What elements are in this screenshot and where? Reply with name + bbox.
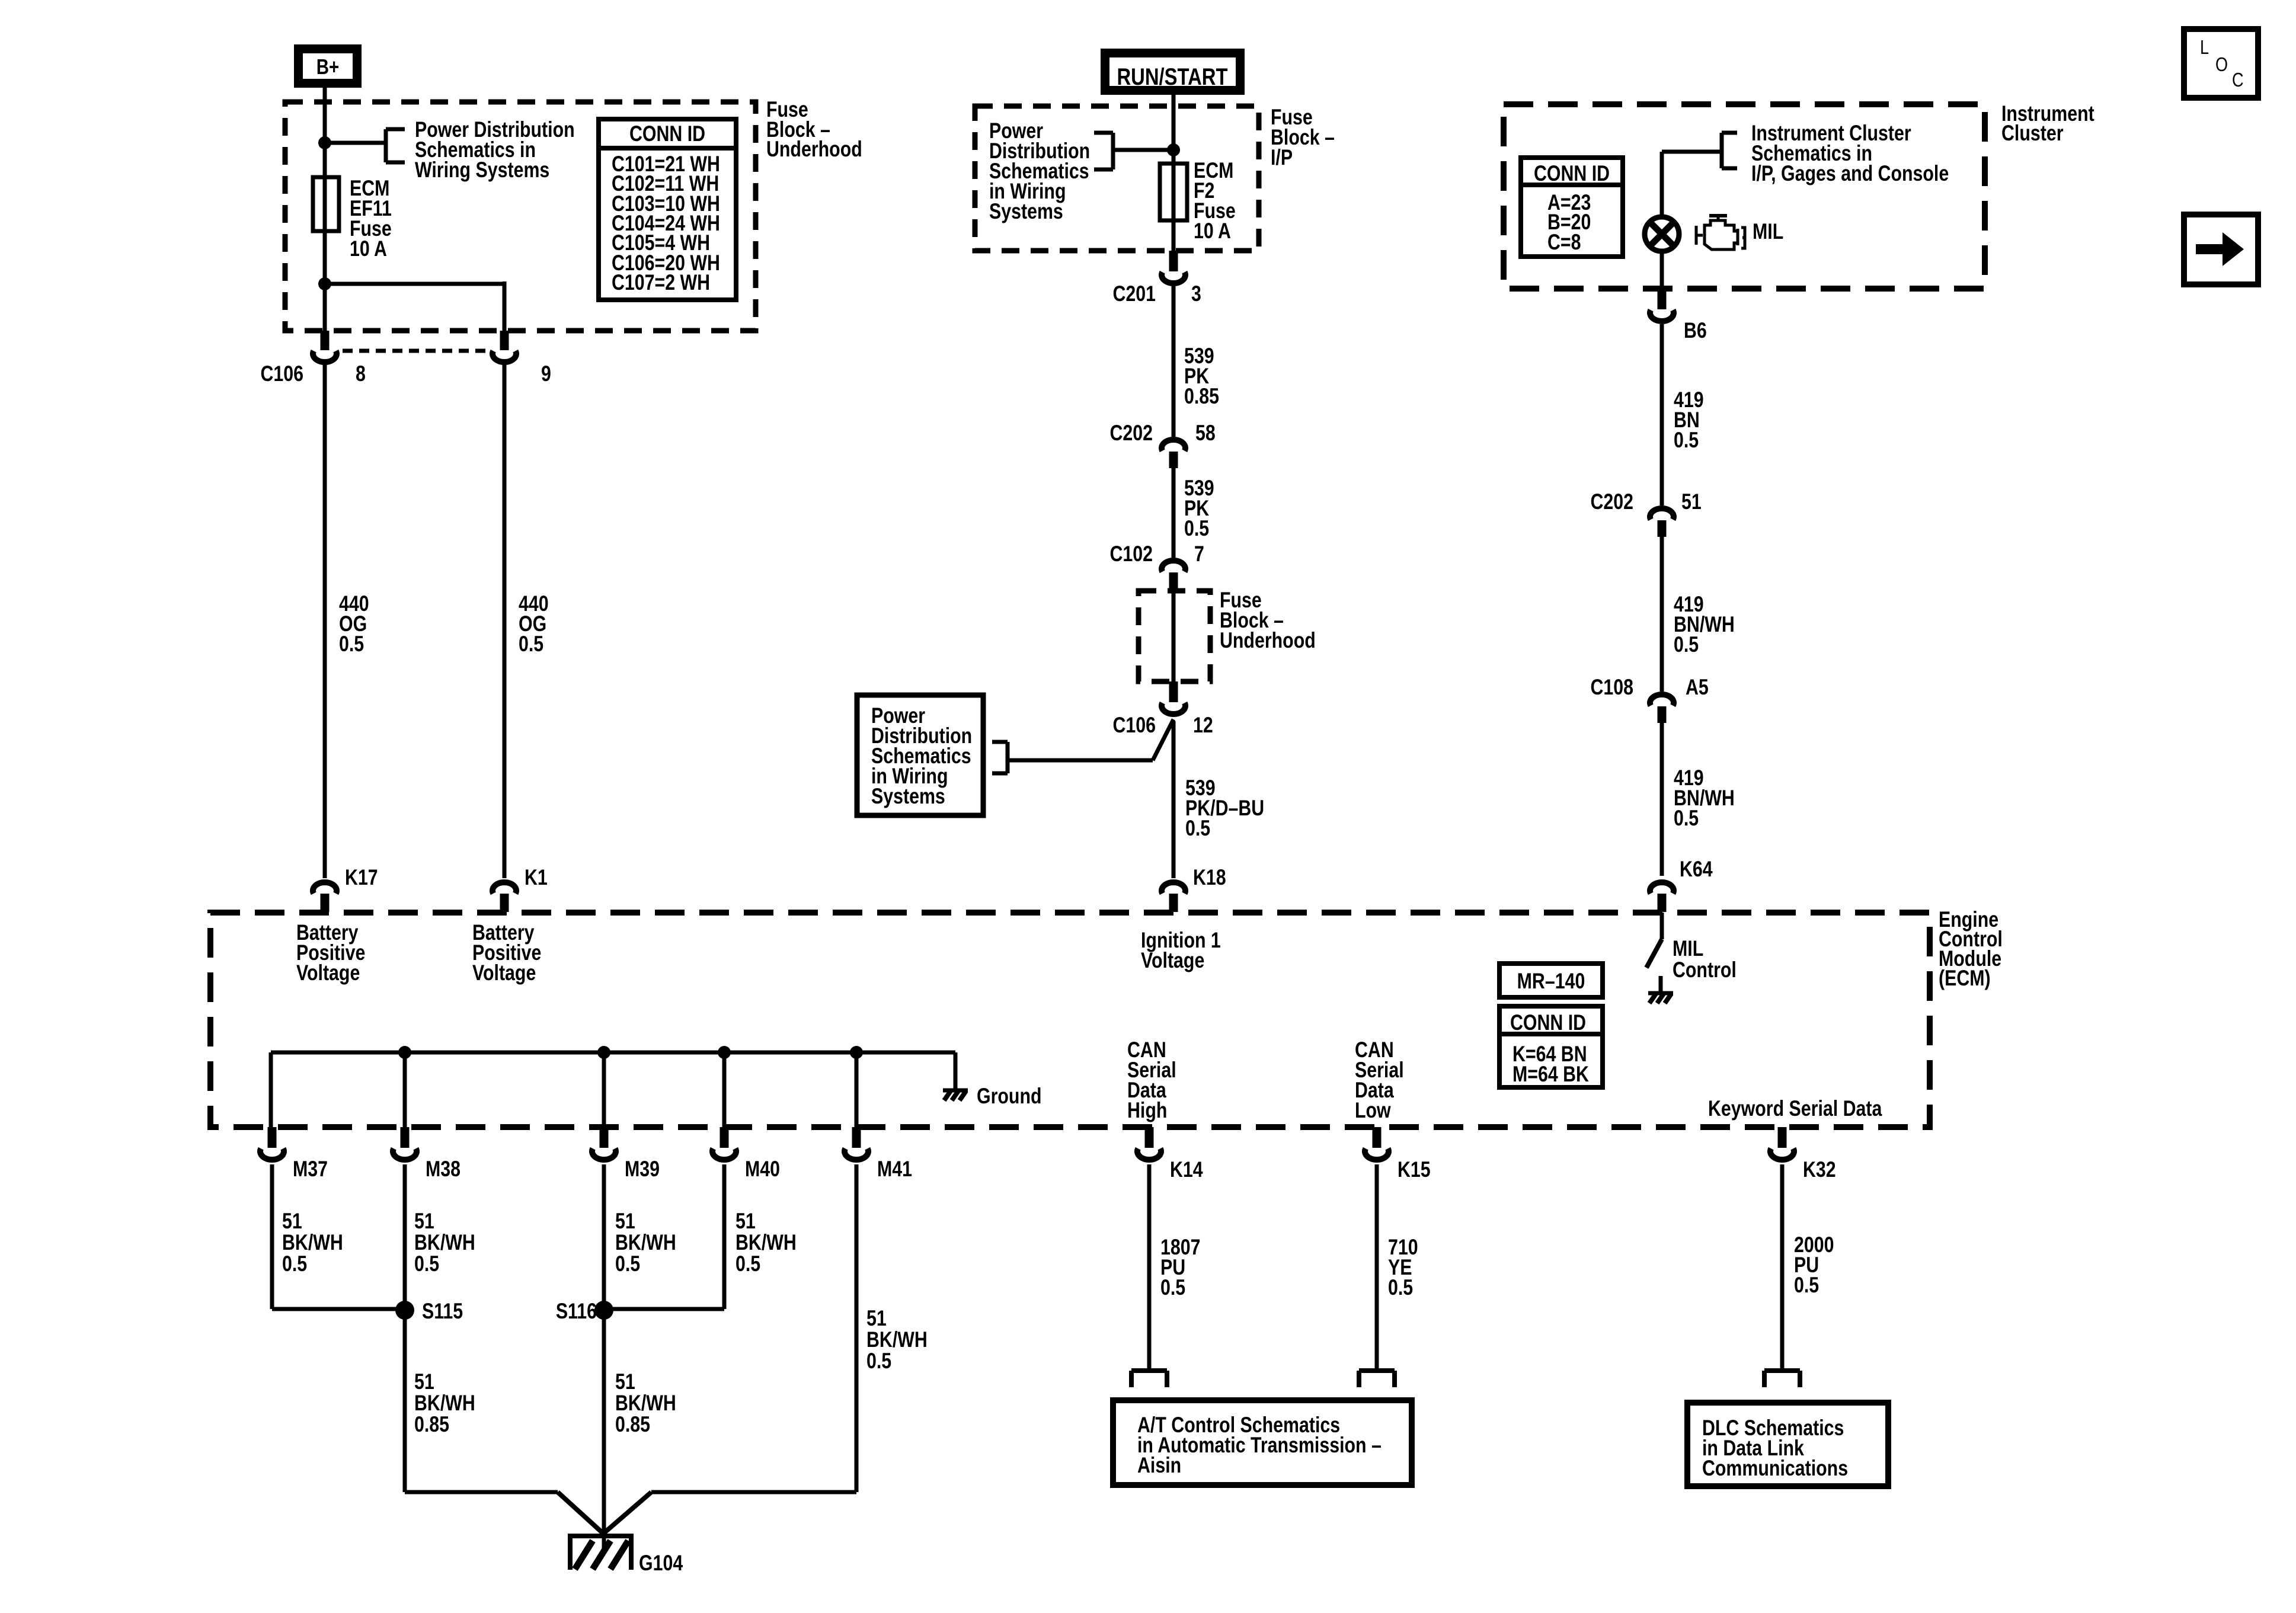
svg-text:C202: C202 <box>1590 489 1633 514</box>
connector K1 into ECM <box>493 882 516 894</box>
svg-text:K64: K64 <box>1680 857 1713 882</box>
chassis ground symbol bus <box>943 1089 968 1093</box>
reference box arrow <box>2184 215 2258 284</box>
ground bus inside ECM <box>271 1051 955 1055</box>
node bus M40 <box>718 1046 731 1059</box>
node bus M41 <box>850 1046 863 1059</box>
svg-text:C106: C106 <box>1112 713 1156 738</box>
check engine icon <box>1696 216 1745 249</box>
dashed box Fuse Block - Underhood <box>285 102 756 331</box>
svg-text:M39: M39 <box>625 1157 660 1182</box>
svg-text:10 A: 10 A <box>1194 219 1231 244</box>
callout bracket middle <box>1111 133 1115 169</box>
svg-text:0.5: 0.5 <box>1185 816 1210 841</box>
svg-text:K1: K1 <box>525 865 548 890</box>
connector M38 <box>401 1127 410 1148</box>
connector K17 into ECM <box>313 882 337 894</box>
wire 710 YE 0.5 <box>1375 1164 1379 1371</box>
svg-text:Aisin: Aisin <box>1137 1453 1181 1478</box>
connector C106 pin 9 <box>500 331 509 350</box>
splice S116 <box>594 1301 613 1320</box>
wire S115 to G104 <box>403 1309 407 1492</box>
svg-text:0.5: 0.5 <box>1184 516 1209 541</box>
wire cluster internal to callout <box>1660 152 1664 215</box>
dashed box Fuse Block - I/P <box>975 106 1259 251</box>
svg-text:Wiring Systems: Wiring Systems <box>415 158 549 183</box>
terminal K15 end <box>1359 1368 1395 1373</box>
svg-text:0.5: 0.5 <box>414 1252 439 1276</box>
callout box DLC Schematics <box>1687 1403 1888 1486</box>
connector K18 into ECM <box>1162 882 1185 894</box>
connector C202 pin 58 <box>1162 440 1185 451</box>
power symbol RUN/START <box>1105 53 1240 91</box>
svg-text:Voltage: Voltage <box>296 961 360 985</box>
svg-text:C202: C202 <box>1109 421 1153 446</box>
ground G104 <box>568 1534 634 1538</box>
node junction to power-distribution callout <box>318 136 331 149</box>
svg-text:C108: C108 <box>1590 675 1633 700</box>
svg-text:C: C <box>2232 70 2244 91</box>
svg-text:Voltage: Voltage <box>1141 948 1204 973</box>
node junction to callout <box>1167 143 1180 156</box>
connector C106 pin 8 <box>321 331 330 350</box>
svg-text:K32: K32 <box>1803 1157 1836 1182</box>
wire 419 BN/WH 0.5 lower <box>1660 722 1664 876</box>
connector M41 <box>852 1127 861 1148</box>
svg-text:MIL: MIL <box>1753 219 1783 244</box>
svg-text:I/P, Gages and Console: I/P, Gages and Console <box>1751 161 1949 186</box>
svg-text:CONN ID: CONN ID <box>629 121 705 146</box>
svg-text:(ECM): (ECM) <box>1939 966 1991 991</box>
svg-text:A5: A5 <box>1686 675 1709 700</box>
reference box MR-140 <box>1499 964 1603 997</box>
wire 419 BN/WH 0.5 upper <box>1660 536 1664 692</box>
svg-text:G104: G104 <box>639 1551 683 1576</box>
svg-text:0.5: 0.5 <box>1674 632 1699 657</box>
svg-text:0.5: 0.5 <box>339 632 364 657</box>
wire S116 to G104 <box>602 1309 606 1553</box>
svg-text:M40: M40 <box>745 1157 780 1182</box>
svg-text:0.5: 0.5 <box>1160 1275 1185 1300</box>
svg-text:L: L <box>2200 37 2209 59</box>
dashed box Fuse Block - Underhood small <box>1139 591 1210 681</box>
wire branch to C106 pin 9 <box>325 282 504 286</box>
svg-text:K17: K17 <box>345 865 378 890</box>
wire M39 to S116 <box>602 1164 606 1309</box>
svg-text:0.85: 0.85 <box>615 1412 650 1437</box>
svg-text:High: High <box>1127 1098 1167 1123</box>
wire 539 PK/D-BU 0.5 <box>1172 721 1176 878</box>
node bus M39 <box>597 1046 610 1059</box>
svg-text:0.5: 0.5 <box>1674 806 1699 831</box>
wire M38 to S115 <box>403 1164 407 1309</box>
chassis ground MIL control <box>1648 991 1673 996</box>
fuse F2 10A <box>1160 164 1187 220</box>
svg-text:C106: C106 <box>260 361 303 386</box>
connector C202 pin 51 <box>1650 508 1674 520</box>
node junction to pin 9 branch <box>318 277 331 290</box>
connector M37 <box>268 1127 277 1148</box>
svg-text:K18: K18 <box>1193 865 1226 890</box>
wire lamp to B6 <box>1660 252 1664 289</box>
svg-text:Underhood: Underhood <box>766 137 862 162</box>
svg-text:S116: S116 <box>556 1299 597 1324</box>
node bus M38 <box>398 1046 411 1059</box>
wire bus drop M38 <box>403 1052 407 1127</box>
wire M37 to S115 <box>270 1164 274 1309</box>
connector C106 pin 12 <box>1169 681 1178 702</box>
svg-text:Cluster: Cluster <box>2001 121 2064 146</box>
callout bracket cluster <box>1720 133 1724 168</box>
wire RUN/START through fuse F2 to C201 <box>1172 92 1176 251</box>
svg-text:RUN/START: RUN/START <box>1117 63 1228 90</box>
svg-text:3: 3 <box>1191 281 1201 306</box>
svg-text:M38: M38 <box>426 1157 461 1182</box>
callout bracket right of box <box>1006 742 1010 773</box>
terminal K32 end <box>1764 1368 1800 1373</box>
svg-text:0.85: 0.85 <box>414 1412 449 1437</box>
terminal K14 end <box>1131 1368 1167 1373</box>
connector K32 <box>1778 1127 1787 1148</box>
svg-text:0.5: 0.5 <box>615 1252 640 1276</box>
svg-text:0.5: 0.5 <box>1388 1275 1413 1300</box>
wire 539 PK 0.5 <box>1172 468 1176 558</box>
svg-text:Systems: Systems <box>989 199 1063 224</box>
svg-text:M37: M37 <box>293 1157 328 1182</box>
svg-text:Keyword Serial Data: Keyword Serial Data <box>1708 1096 1882 1121</box>
wire 1807 PU 0.5 <box>1147 1164 1152 1371</box>
svg-text:0.5: 0.5 <box>519 632 543 657</box>
svg-text:Control: Control <box>1673 958 1737 982</box>
svg-text:Underhood: Underhood <box>1220 628 1316 653</box>
connector K64 into ECM <box>1650 882 1674 894</box>
svg-text:51: 51 <box>1681 489 1702 514</box>
connector M40 <box>720 1127 729 1148</box>
connector C102 pin 7 <box>1162 561 1185 572</box>
wire through small fuse block box <box>1172 588 1176 681</box>
wire 419 BN 0.5 <box>1660 324 1664 505</box>
svg-text:C201: C201 <box>1112 281 1156 306</box>
splice S115 <box>395 1301 414 1320</box>
wire M41 down <box>855 1164 859 1492</box>
svg-text:Low: Low <box>1355 1098 1391 1123</box>
callout bracket left <box>384 129 388 162</box>
dashed connector line C106 <box>343 349 486 353</box>
svg-text:C102: C102 <box>1109 542 1153 567</box>
svg-text:0.5: 0.5 <box>866 1349 891 1374</box>
svg-text:0.85: 0.85 <box>1184 384 1219 409</box>
fuse EF11 10A <box>313 177 339 231</box>
dashed box Engine Control Module ECM <box>210 913 1930 1127</box>
dashed box Instrument Cluster <box>1504 104 1985 289</box>
svg-text:K14: K14 <box>1170 1157 1203 1182</box>
svg-text:0.5: 0.5 <box>1674 428 1699 453</box>
svg-text:9: 9 <box>541 361 551 386</box>
wire 2000 PU 0.5 <box>1780 1164 1785 1371</box>
svg-text:Ground: Ground <box>977 1084 1042 1109</box>
wire bus drop M40 <box>722 1052 727 1127</box>
connector K14 <box>1145 1127 1154 1148</box>
power symbol B+ <box>299 49 357 84</box>
wire M40 to S116 <box>722 1164 727 1309</box>
reference box LOC <box>2184 29 2258 98</box>
svg-text:O: O <box>2215 55 2228 76</box>
wire bus drop M39 <box>602 1052 606 1127</box>
svg-text:M=64 BK: M=64 BK <box>1512 1062 1589 1087</box>
svg-text:58: 58 <box>1195 421 1216 446</box>
connector B6 <box>1658 289 1667 309</box>
CONN ID table cluster <box>1521 158 1623 257</box>
svg-text:CONN ID: CONN ID <box>1534 161 1610 186</box>
svg-text:10 A: 10 A <box>350 236 387 261</box>
svg-text:Systems: Systems <box>871 784 945 809</box>
indicator lamp MIL <box>1645 217 1679 251</box>
connector K15 <box>1373 1127 1382 1148</box>
callout box A/T Control Schematics <box>1113 1400 1412 1485</box>
wire from B+ down through fuse EF11 <box>323 88 327 331</box>
svg-text:0.5: 0.5 <box>1794 1273 1819 1298</box>
wire from callout to C106-12 wire <box>1008 759 1153 763</box>
svg-text:Voltage: Voltage <box>472 961 536 985</box>
svg-text:12: 12 <box>1193 713 1213 738</box>
connector C108 pin A5 <box>1650 695 1674 706</box>
MIL Control switch <box>1660 913 1664 939</box>
CONN ID table ECM <box>1499 1006 1603 1087</box>
svg-text:0.5: 0.5 <box>736 1252 760 1276</box>
wire branch to callout bracket <box>325 141 386 145</box>
wire 440 OG left <box>323 364 327 878</box>
svg-text:C107=2 WH: C107=2 WH <box>612 270 710 295</box>
connector M39 <box>600 1127 609 1148</box>
wire 440 OG right <box>503 364 507 878</box>
svg-text:MR–140: MR–140 <box>1517 969 1585 994</box>
svg-text:C=8: C=8 <box>1547 230 1581 255</box>
svg-text:CONN ID: CONN ID <box>1510 1010 1586 1035</box>
svg-text:0.5: 0.5 <box>282 1252 307 1276</box>
svg-text:S115: S115 <box>422 1299 463 1324</box>
wire M41 to G104 <box>651 1490 856 1494</box>
wire branch to callout bracket <box>1113 148 1173 152</box>
svg-text:K15: K15 <box>1398 1157 1431 1182</box>
CONN ID table underhood <box>599 119 736 300</box>
svg-text:8: 8 <box>356 361 366 386</box>
connector C201 pin 3 <box>1169 251 1178 271</box>
wire bus drop M41 <box>855 1052 859 1127</box>
svg-text:7: 7 <box>1194 542 1204 567</box>
svg-text:B+: B+ <box>316 55 340 78</box>
svg-text:M41: M41 <box>877 1157 912 1182</box>
callout box Power Distribution Schematics in Wiring Systems <box>857 695 983 815</box>
svg-text:I/P: I/P <box>1271 145 1293 170</box>
svg-text:Communications: Communications <box>1702 1456 1848 1481</box>
svg-text:B6: B6 <box>1684 318 1707 343</box>
wire 539 PK 0.85 <box>1172 286 1176 437</box>
